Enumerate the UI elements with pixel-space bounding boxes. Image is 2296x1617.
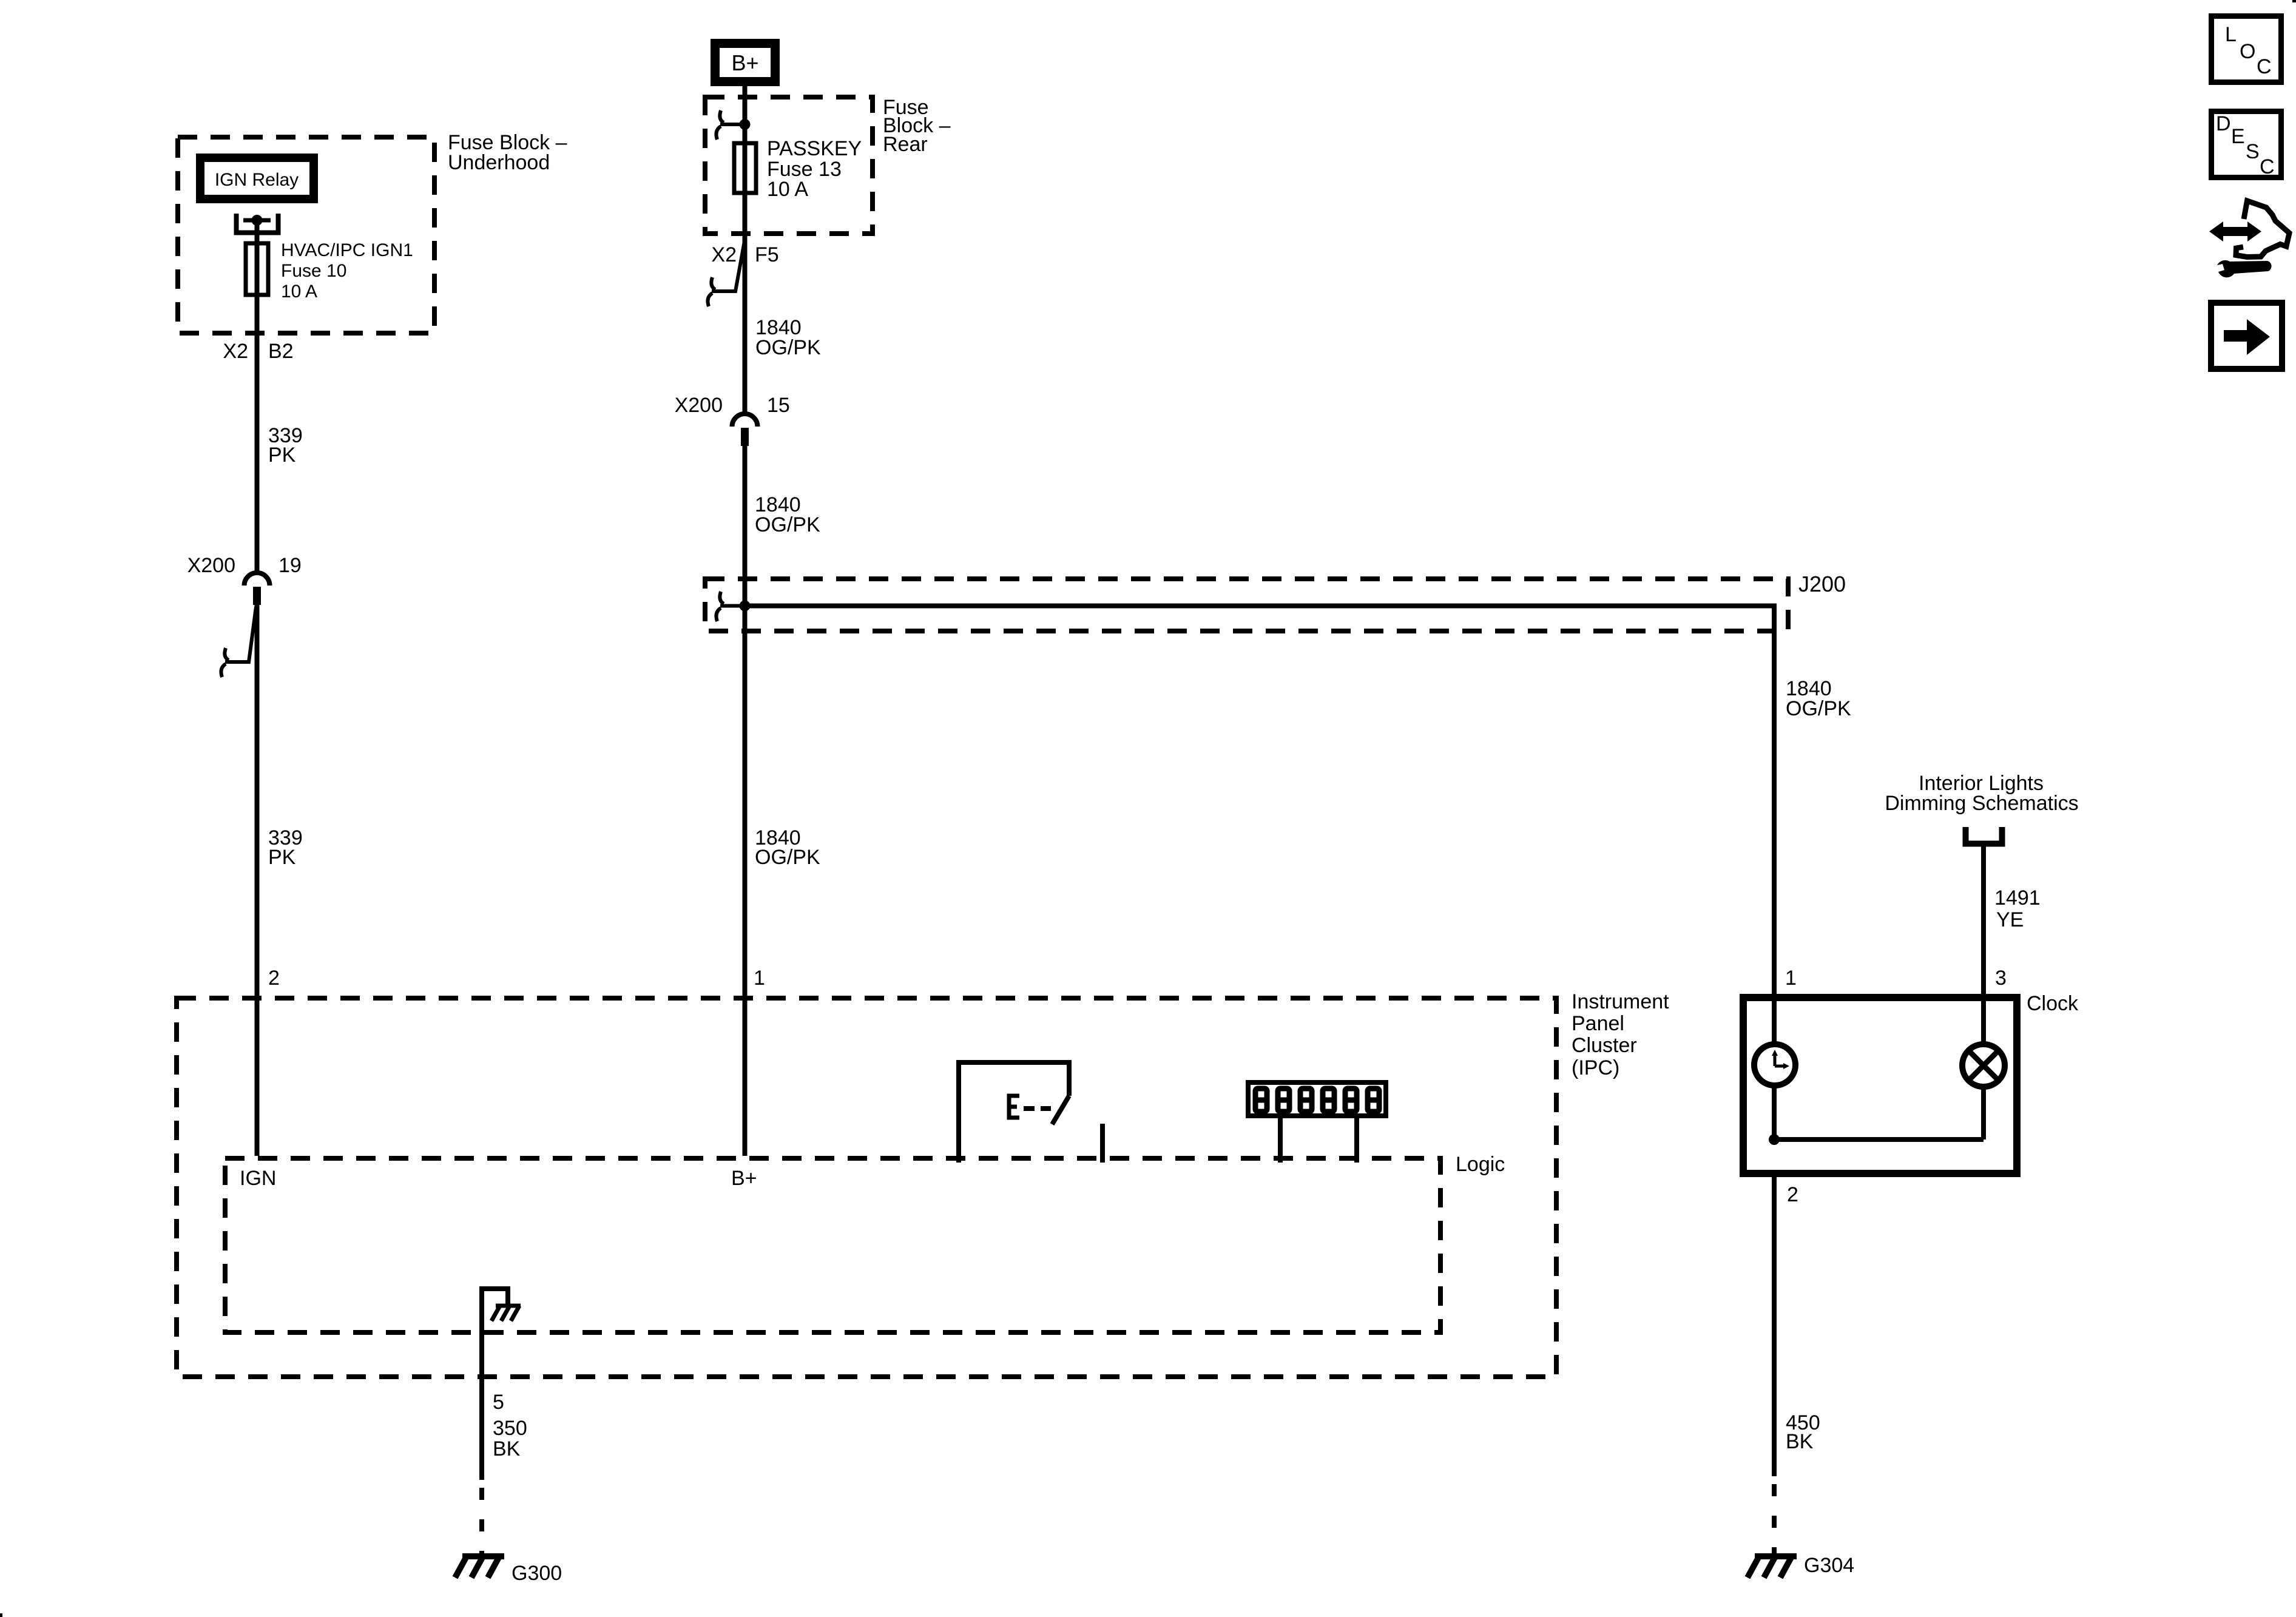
svg-text:B+: B+ bbox=[731, 50, 758, 75]
DESC icon box bbox=[2212, 112, 2281, 178]
svg-text:Clock: Clock bbox=[2027, 992, 2079, 1015]
pin 1 label bbox=[754, 967, 765, 990]
svg-text:C: C bbox=[2260, 155, 2275, 178]
logic dashed box bbox=[225, 1158, 1440, 1332]
svg-text:15: 15 bbox=[767, 394, 790, 417]
svg-text:3: 3 bbox=[1995, 967, 2007, 990]
svg-text:S: S bbox=[2246, 140, 2260, 163]
wire IGN relay to X200 dome bbox=[255, 220, 260, 571]
wire label 1840 OG/PK fourth bbox=[755, 826, 820, 869]
fuse block rear dashed box bbox=[705, 97, 873, 234]
B+ power box bbox=[715, 44, 775, 82]
J200 bus wire bbox=[745, 606, 1775, 994]
switch symbol in IPC bbox=[959, 1062, 1069, 1163]
connector X200 pin 15 bbox=[732, 414, 758, 427]
svg-text:X2: X2 bbox=[223, 340, 248, 363]
svg-text:OG/PK: OG/PK bbox=[755, 336, 821, 359]
wire bracket to clock pin 3 bbox=[1981, 844, 1986, 1044]
svg-text:B+: B+ bbox=[731, 1167, 757, 1190]
svg-text:Dimming Schematics: Dimming Schematics bbox=[1885, 792, 2078, 815]
node X2 B2 bbox=[223, 340, 293, 363]
IGN pin label bbox=[240, 1167, 276, 1190]
wire label 339 PK second bbox=[268, 826, 303, 869]
svg-text:L: L bbox=[2225, 23, 2237, 46]
junction dot bbox=[740, 119, 751, 130]
X2/F5 lever bbox=[712, 238, 745, 291]
svg-text:OG/PK: OG/PK bbox=[1786, 697, 1851, 720]
interior lights heading bbox=[1885, 772, 2078, 815]
svg-text:PK: PK bbox=[268, 444, 296, 467]
ground G304 bbox=[1755, 1553, 1797, 1559]
LOC icon box bbox=[2212, 16, 2281, 83]
svg-text:X200: X200 bbox=[675, 394, 723, 417]
svg-text:F5: F5 bbox=[755, 243, 779, 266]
svg-text:2: 2 bbox=[268, 967, 280, 990]
wire X200/19 to IPC IGN pin bbox=[255, 605, 260, 1156]
fuse HVAC/IPC IGN1 Fuse 10 bbox=[246, 243, 268, 295]
svg-text:10 A: 10 A bbox=[281, 282, 317, 302]
svg-text:19: 19 bbox=[279, 554, 302, 577]
svg-text:5: 5 bbox=[493, 1391, 504, 1414]
svg-text:E: E bbox=[2231, 125, 2245, 148]
wire B+ to X200 dome bbox=[743, 86, 748, 413]
relay contact bbox=[237, 214, 279, 233]
svg-text:IGN: IGN bbox=[240, 1167, 276, 1190]
svg-text:BK: BK bbox=[1786, 1430, 1814, 1453]
corner marks bbox=[2292, 0, 2296, 2]
clock face icon bbox=[1754, 1044, 1795, 1085]
svg-text:(IPC): (IPC) bbox=[1572, 1056, 1619, 1079]
ground G300 bbox=[462, 1553, 504, 1559]
display legs bbox=[1278, 1118, 1283, 1163]
node X2 F5 bbox=[711, 243, 778, 266]
svg-text:1: 1 bbox=[754, 967, 765, 990]
wire label 1840 OG/PK first bbox=[755, 316, 821, 359]
wire label 1840 OG/PK second bbox=[755, 493, 820, 536]
next page arrow box bbox=[2211, 303, 2282, 369]
svg-text:10 A: 10 A bbox=[767, 178, 808, 201]
wire lamp to junction bbox=[1981, 1087, 1986, 1139]
svg-text:Instrument: Instrument bbox=[1572, 990, 1669, 1013]
svg-text:IGN Relay: IGN Relay bbox=[215, 170, 299, 190]
svg-text:Panel: Panel bbox=[1572, 1012, 1624, 1035]
pin 2 label bbox=[268, 967, 280, 990]
svg-text:D: D bbox=[2216, 112, 2231, 135]
svg-text:Logic: Logic bbox=[1456, 1153, 1505, 1176]
clock box bbox=[1743, 998, 2017, 1173]
off-page bracket bbox=[1966, 827, 2002, 844]
svg-text:2: 2 bbox=[1787, 1183, 1798, 1206]
svg-text:OG/PK: OG/PK bbox=[755, 513, 820, 536]
instrument panel cluster dashed box bbox=[177, 998, 1556, 1377]
svg-text:G304: G304 bbox=[1804, 1554, 1854, 1577]
connector X200 pin 19 bbox=[245, 573, 270, 586]
svg-text:Rear: Rear bbox=[883, 133, 928, 156]
B+ pin label bbox=[731, 1167, 757, 1190]
svg-text:X200: X200 bbox=[187, 554, 235, 577]
logic internal ground bbox=[482, 1289, 508, 1335]
wire clock to junction bbox=[1772, 1085, 1777, 1139]
svg-text:X2: X2 bbox=[711, 243, 737, 266]
wire label 339 PK bbox=[268, 424, 303, 467]
svg-text:1491: 1491 bbox=[1994, 886, 2041, 910]
svg-text:G300: G300 bbox=[512, 1562, 562, 1585]
J200 terminal hook bbox=[720, 604, 745, 608]
svg-text:J200: J200 bbox=[1798, 572, 1846, 596]
terminal hook at B+ junction bbox=[720, 123, 745, 126]
diagnostic car icon : car outline bbox=[2236, 201, 2289, 257]
svg-text:Underhood: Underhood bbox=[448, 151, 550, 174]
svg-text:Cluster: Cluster bbox=[1572, 1034, 1637, 1057]
pin labels 1 3 2 bbox=[1785, 967, 2007, 1206]
wire X200/15 to IPC B+ pin bbox=[743, 446, 748, 1156]
svg-text:BK: BK bbox=[493, 1437, 521, 1460]
svg-text:1: 1 bbox=[1785, 967, 1797, 990]
wire clock pin2 to G304 bbox=[1772, 1177, 1777, 1476]
svg-text:O: O bbox=[2240, 40, 2255, 63]
fuse block underhood dashed box bbox=[178, 137, 434, 333]
IGN relay box bbox=[200, 158, 314, 199]
fuse block underhood label bbox=[448, 131, 567, 174]
wire label 1840 OG/PK third bbox=[1786, 677, 1851, 720]
lamp icon bbox=[1962, 1044, 2005, 1087]
svg-text:HVAC/IPC IGN1: HVAC/IPC IGN1 bbox=[281, 240, 413, 260]
svg-text:C: C bbox=[2257, 55, 2272, 78]
svg-text:Fuse 10: Fuse 10 bbox=[281, 261, 346, 281]
svg-text:350: 350 bbox=[493, 1417, 527, 1440]
svg-text:YE: YE bbox=[1996, 908, 2024, 931]
svg-text:PASSKEY: PASSKEY bbox=[767, 137, 862, 160]
diagnostic car icon : wrench bbox=[2217, 260, 2272, 277]
wire logic to G300 bbox=[479, 1332, 484, 1480]
wire pin1 into clock bbox=[1772, 631, 1777, 1044]
diagnostic car icon : double arrow bbox=[2209, 221, 2261, 241]
svg-text:PK: PK bbox=[268, 846, 296, 869]
J200 junction dot bbox=[740, 601, 751, 612]
svg-text:OG/PK: OG/PK bbox=[755, 846, 820, 869]
digital display in IPC bbox=[1248, 1082, 1386, 1116]
splice J200 dashed box bbox=[705, 579, 1788, 631]
fuse PASSKEY Fuse 13 bbox=[734, 143, 756, 193]
svg-text:B2: B2 bbox=[268, 340, 294, 363]
